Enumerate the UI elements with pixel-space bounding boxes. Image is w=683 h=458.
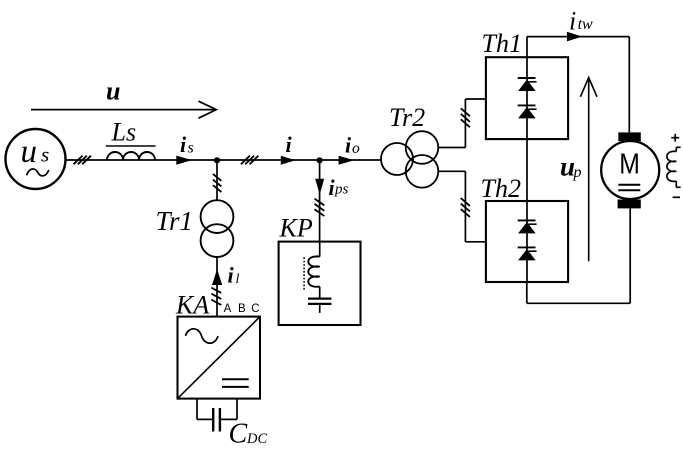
svg-text:M: M [619, 149, 640, 181]
svg-text:s: s [188, 140, 194, 157]
svg-text:Tr1: Tr1 [156, 206, 194, 236]
svg-text:l: l [236, 272, 240, 287]
svg-text:i: i [286, 132, 293, 157]
svg-text:ps: ps [334, 182, 349, 198]
svg-text:A: A [224, 303, 232, 315]
svg-text:Tr2: Tr2 [389, 103, 425, 132]
svg-text:KP: KP [279, 213, 313, 242]
svg-text:Th1: Th1 [482, 29, 522, 58]
svg-text:Ls: Ls [111, 117, 137, 146]
svg-text:u: u [106, 77, 120, 106]
svg-text:Th2: Th2 [481, 174, 521, 203]
svg-text:C: C [229, 419, 248, 450]
svg-text:KA: KA [175, 290, 209, 319]
svg-text:i: i [228, 263, 235, 288]
svg-text:DC: DC [246, 431, 267, 447]
svg-text:i: i [180, 132, 187, 157]
svg-text:C: C [251, 303, 259, 315]
svg-text:tw: tw [578, 16, 593, 33]
svg-text:s: s [41, 143, 49, 167]
svg-text:B: B [238, 303, 246, 315]
svg-text:i: i [569, 6, 576, 35]
svg-text:o: o [352, 140, 360, 157]
svg-text:u: u [21, 134, 38, 170]
svg-text:i: i [345, 132, 352, 157]
svg-text:p: p [573, 164, 582, 181]
